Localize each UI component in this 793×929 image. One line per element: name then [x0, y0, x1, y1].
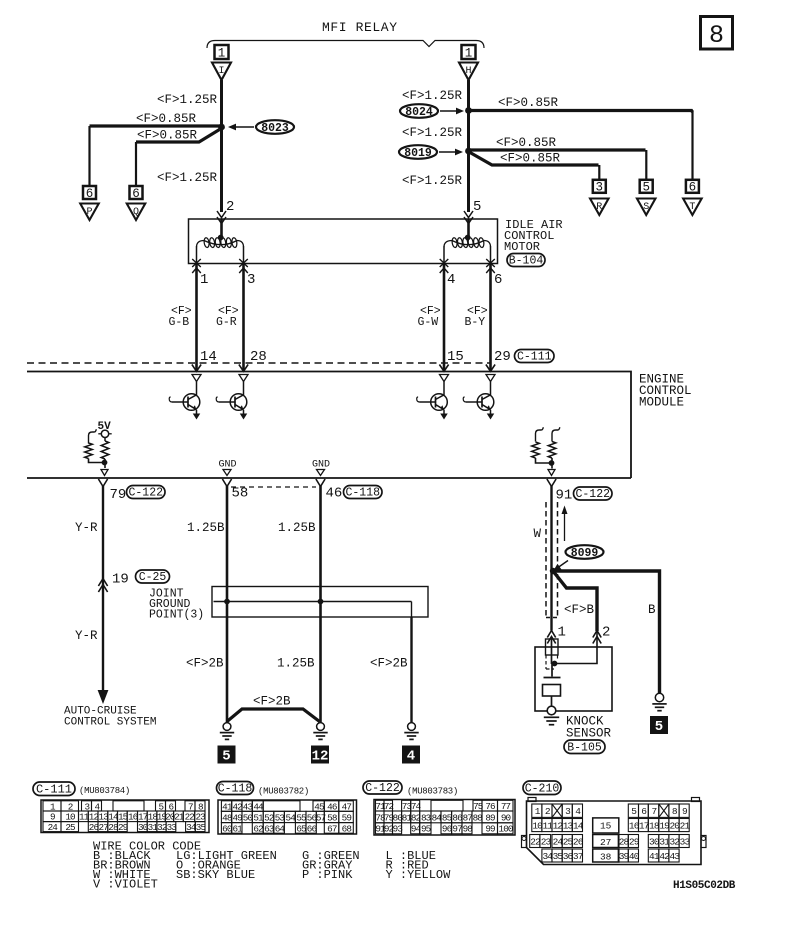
- svg-text:C-122: C-122: [128, 486, 163, 499]
- svg-text:8099: 8099: [571, 547, 599, 560]
- svg-text:<F>1.25R: <F>1.25R: [157, 171, 218, 185]
- chevrons knock pin 2: [593, 631, 601, 638]
- svg-text:60: 60: [222, 823, 232, 834]
- connector oval B-104: [507, 254, 545, 267]
- idle air control motor box B-104: [189, 219, 498, 264]
- svg-text:79: 79: [110, 487, 127, 503]
- bus drop wire: [411, 602, 413, 618]
- svg-text:29: 29: [494, 349, 511, 365]
- svg-text:C-118: C-118: [218, 782, 253, 795]
- svg-text:82: 82: [411, 812, 421, 823]
- circuit ref oval 8023: [256, 120, 294, 134]
- svg-text:41: 41: [649, 851, 660, 862]
- svg-text:<F>0.85R: <F>0.85R: [136, 112, 197, 126]
- wire pin1 into sensor: [551, 638, 553, 664]
- wire pin5 to coil center tap: [467, 219, 470, 237]
- node shield split: [550, 568, 556, 574]
- engine control module box: [27, 372, 631, 479]
- svg-text:4: 4: [447, 272, 455, 288]
- svg-text:(MU803784): (MU803784): [79, 786, 130, 796]
- node coil1 center tap: [218, 235, 224, 241]
- svg-text:4: 4: [407, 749, 415, 765]
- svg-text:2: 2: [226, 199, 234, 215]
- wire IACM pin4 to ECM 15: [443, 264, 446, 372]
- svg-text:90: 90: [501, 812, 511, 823]
- svg-text:16: 16: [128, 812, 138, 823]
- emitter ground arrow Q3: [440, 414, 448, 420]
- svg-text:5: 5: [642, 181, 650, 195]
- svg-text:63: 63: [264, 823, 274, 834]
- svg-text:CONTROL SYSTEM: CONTROL SYSTEM: [64, 717, 156, 729]
- node sensor junction: [552, 661, 558, 667]
- svg-text:1.25B: 1.25B: [278, 521, 316, 535]
- triangle H (right relay pin): [459, 63, 478, 81]
- wire branch 0.85R to R: [470, 153, 599, 166]
- chevron wire4 into ECM: [439, 365, 448, 372]
- svg-text:96: 96: [442, 824, 452, 835]
- wire main right feed: [467, 80, 470, 212]
- svg-text:51: 51: [253, 812, 264, 823]
- svg-text:6: 6: [86, 187, 94, 201]
- wire Y-R pin79 down: [102, 486, 104, 692]
- transistor Q2: [230, 394, 247, 411]
- wire 58 ground drop: [226, 602, 229, 723]
- svg-text:12: 12: [312, 749, 329, 765]
- chevron wire3 into ECM: [239, 365, 248, 372]
- svg-text:85: 85: [442, 812, 452, 823]
- svg-text:18: 18: [649, 820, 660, 831]
- svg-text:14: 14: [573, 820, 584, 831]
- C-210 right tab: [701, 836, 706, 848]
- svg-text:97: 97: [452, 824, 462, 835]
- input triangle pin wire 2: [239, 375, 248, 382]
- svg-text:(MU803782): (MU803782): [258, 787, 309, 797]
- svg-text:6: 6: [132, 187, 140, 201]
- connector box 6 (Q): [130, 186, 143, 199]
- svg-text:83: 83: [421, 812, 431, 823]
- svg-text:<F>2B: <F>2B: [370, 657, 408, 671]
- C-210 left tab: [522, 836, 527, 848]
- connector C-210 header: [523, 781, 561, 795]
- svg-text:1: 1: [465, 46, 473, 60]
- node bus 58: [224, 599, 230, 605]
- shield dashed right: [557, 502, 559, 618]
- svg-text:68: 68: [342, 823, 352, 834]
- svg-text:46: 46: [326, 486, 343, 502]
- svg-text:P: P: [86, 207, 92, 218]
- svg-text:43: 43: [669, 851, 680, 862]
- svg-text:64: 64: [275, 823, 286, 834]
- wire (F)B to knock pin 2: [553, 571, 597, 631]
- wire 58 to joint ground: [226, 486, 229, 602]
- arrow from 8023 to junction: [234, 126, 254, 128]
- svg-text:48: 48: [222, 812, 232, 823]
- svg-text:28: 28: [108, 822, 118, 833]
- svg-text:3: 3: [596, 181, 604, 195]
- svg-text:61: 61: [232, 823, 243, 834]
- triangle P: [80, 204, 99, 221]
- resistor left pullup: [104, 438, 106, 442]
- connector table C-111: [41, 800, 209, 833]
- svg-text:V :VIOLET: V :VIOLET: [93, 878, 158, 892]
- direction arrow up: [564, 513, 566, 541]
- connector box 3: [593, 180, 606, 193]
- connector C-210 housing: [527, 801, 702, 865]
- svg-text:58: 58: [232, 486, 249, 502]
- input triangle pin wire 3: [440, 375, 449, 382]
- connector oval B-105: [564, 740, 605, 754]
- svg-text:76: 76: [485, 801, 495, 812]
- svg-text:54: 54: [286, 812, 297, 823]
- svg-text:C-122: C-122: [575, 488, 610, 501]
- node bus 46: [318, 599, 324, 605]
- svg-text:R: R: [596, 202, 602, 213]
- transistor Q1: [183, 394, 200, 411]
- triangle S: [637, 199, 656, 216]
- svg-text:I: I: [218, 66, 224, 77]
- wire resistor join right: [536, 458, 552, 463]
- wire IACM pin3 to ECM 28: [242, 264, 245, 372]
- pin 46 chevron: [316, 479, 325, 487]
- svg-text:5: 5: [222, 749, 230, 765]
- svg-text:SENSOR: SENSOR: [566, 727, 612, 741]
- node resistor join left: [102, 460, 108, 466]
- triangle T: [683, 199, 702, 216]
- ground bus bar: [214, 601, 412, 603]
- connector table C-122 header: [363, 781, 402, 794]
- svg-text:<F>0.85R: <F>0.85R: [498, 96, 559, 110]
- connector pin box 1 (left MFI relay output): [215, 45, 229, 59]
- piezo element: [551, 664, 553, 677]
- shielded wire W pin 91: [550, 486, 552, 631]
- svg-text:1.25B: 1.25B: [187, 521, 225, 535]
- C-210 wide cell 15: [593, 818, 619, 833]
- resistor left second with hook: [89, 429, 97, 443]
- svg-text:67: 67: [327, 823, 337, 834]
- svg-text:6: 6: [689, 181, 697, 195]
- node junction 8019: [465, 148, 472, 155]
- svg-text:Y :YELLOW: Y :YELLOW: [386, 868, 452, 882]
- svg-text:Y-R: Y-R: [75, 521, 98, 535]
- connector table C-118: [218, 800, 357, 834]
- svg-text:<F>0.85R: <F>0.85R: [500, 152, 561, 166]
- svg-text:<F>B: <F>B: [564, 603, 595, 617]
- connector oval C-122 right: [574, 487, 613, 500]
- svg-text:<F>2B: <F>2B: [186, 657, 224, 671]
- svg-text:24: 24: [48, 822, 59, 833]
- gnd triangle 58: [223, 470, 231, 476]
- C-210 wide cell 38: [593, 849, 619, 862]
- C-210 wide cell 27: [593, 835, 619, 848]
- triangle I (left relay pin): [212, 63, 231, 81]
- svg-text:93: 93: [393, 824, 403, 835]
- svg-text:74: 74: [411, 801, 422, 812]
- shield dashed bottom: [546, 617, 558, 619]
- output triangle pin 79: [101, 470, 108, 476]
- svg-text:(MU803783): (MU803783): [407, 787, 458, 797]
- emitter ground arrow Q4: [487, 414, 495, 420]
- svg-text:30: 30: [649, 836, 660, 847]
- arrow from 8099 to shield node: [558, 561, 568, 568]
- svg-text:27: 27: [600, 837, 611, 848]
- svg-text:23: 23: [541, 836, 552, 847]
- connector table C-122: [374, 800, 515, 836]
- wire branch 0.85R to P: [90, 124, 222, 127]
- ground 12: [317, 723, 325, 731]
- svg-text:MOTOR: MOTOR: [504, 240, 540, 254]
- svg-text:72: 72: [384, 801, 394, 812]
- svg-text:C-118: C-118: [345, 486, 380, 499]
- svg-text:95: 95: [421, 824, 431, 835]
- svg-text:H: H: [465, 66, 471, 77]
- connector oval C-122: [127, 486, 166, 499]
- svg-text:B-Y: B-Y: [465, 316, 486, 329]
- svg-text:C-25: C-25: [139, 571, 167, 584]
- svg-text:<F>0.85R: <F>0.85R: [496, 136, 557, 150]
- svg-text:33: 33: [167, 822, 177, 833]
- svg-text:86: 86: [452, 812, 462, 823]
- coil right winding: [444, 241, 491, 248]
- ground 4: [408, 723, 416, 731]
- svg-text:25: 25: [65, 822, 75, 833]
- svg-text:59: 59: [342, 812, 352, 823]
- connector oval C-118: [344, 486, 383, 499]
- svg-text:<F>1.25R: <F>1.25R: [402, 126, 463, 140]
- svg-text:B-104: B-104: [509, 254, 544, 267]
- svg-text:49: 49: [232, 812, 242, 823]
- svg-text:MODULE: MODULE: [639, 396, 684, 410]
- wire bus to ground 4: [410, 617, 412, 723]
- svg-text:66: 66: [307, 823, 317, 834]
- svg-text:17: 17: [639, 820, 649, 831]
- chevron wire6 into ECM: [486, 365, 495, 372]
- svg-text:MFI RELAY: MFI RELAY: [322, 20, 398, 35]
- svg-text:75: 75: [473, 801, 483, 812]
- wire bridge (F)2B between grounds: [227, 709, 320, 722]
- svg-text:5: 5: [473, 199, 481, 215]
- svg-text:<F>2B: <F>2B: [253, 695, 291, 709]
- node coil2 center tap: [465, 235, 471, 241]
- wire branch 0.85R to S: [469, 148, 646, 151]
- svg-text:G-B: G-B: [169, 316, 190, 329]
- wire resistor join left: [89, 459, 105, 463]
- svg-text:C-111: C-111: [36, 782, 72, 796]
- gnd triangle 46: [317, 470, 325, 476]
- svg-text:C-122: C-122: [365, 782, 400, 795]
- svg-text:G-W: G-W: [418, 316, 439, 329]
- svg-text:<F>0.85R: <F>0.85R: [137, 129, 198, 143]
- svg-text:50: 50: [243, 812, 253, 823]
- resistor right pair with hooks (knock sensor bias): [536, 427, 544, 441]
- input triangle pin wire 1: [192, 375, 201, 382]
- wire IACM pin1 to ECM 14: [195, 264, 198, 372]
- svg-text:1.25B: 1.25B: [277, 657, 315, 671]
- connector box 6 (P): [83, 186, 96, 199]
- svg-text:T: T: [689, 202, 695, 213]
- svg-text:62: 62: [253, 823, 263, 834]
- output triangle pin 91: [548, 470, 555, 476]
- arrow from 8024 to junction: [440, 110, 458, 112]
- chevron into IACM pin 5: [464, 211, 473, 218]
- svg-text:27: 27: [99, 822, 109, 833]
- svg-text:POINT(3): POINT(3): [149, 609, 204, 622]
- wire B to ground: [553, 571, 660, 694]
- pin 58 chevron: [222, 479, 231, 487]
- svg-text:C-210: C-210: [525, 782, 560, 795]
- connector box 6: [686, 180, 699, 193]
- knock sensor box B-105: [535, 647, 612, 711]
- svg-text:7: 7: [651, 806, 656, 817]
- svg-text:26: 26: [573, 836, 584, 847]
- svg-text:35: 35: [196, 822, 206, 833]
- svg-text:8019: 8019: [404, 147, 432, 160]
- chevron into IACM pin 2: [217, 211, 226, 218]
- svg-text:100: 100: [499, 824, 513, 835]
- C-210 corner tabs: [528, 798, 536, 802]
- svg-text:8024: 8024: [405, 106, 433, 119]
- node junction 8023: [218, 124, 225, 131]
- svg-text:37: 37: [573, 851, 583, 862]
- svg-text:3: 3: [247, 272, 255, 288]
- connector oval C-111: [515, 350, 555, 363]
- connector pin box 1 (right MFI relay output): [462, 45, 476, 59]
- svg-text:40: 40: [629, 851, 640, 862]
- connector box 5: [640, 180, 653, 193]
- svg-text:98: 98: [463, 824, 473, 835]
- svg-text:H1S05C02DB: H1S05C02DB: [673, 880, 736, 892]
- svg-text:P :PINK: P :PINK: [302, 868, 353, 882]
- brace under MFI RELAY: [207, 41, 484, 49]
- dashed connector line C-111: [27, 362, 491, 364]
- svg-text:21: 21: [680, 820, 691, 831]
- circuit ref oval 8019: [399, 145, 437, 159]
- svg-text:<F>1.25R: <F>1.25R: [402, 89, 463, 103]
- svg-text:55: 55: [296, 812, 306, 823]
- wire pin2 to coil center tap: [220, 219, 223, 237]
- dashed tie 58-46: [231, 486, 316, 488]
- svg-text:89: 89: [485, 812, 495, 823]
- svg-text:2: 2: [602, 625, 610, 641]
- ground B wire: [655, 693, 663, 701]
- wire branch 0.85R to Q: [136, 130, 220, 143]
- svg-text:32: 32: [157, 822, 167, 833]
- transistor Q4: [477, 394, 494, 411]
- node resistor join right: [549, 460, 555, 466]
- wire 46 to joint ground: [319, 486, 322, 602]
- connector oval C-25: [136, 570, 170, 583]
- emitter ground arrow Q1: [193, 414, 201, 420]
- connector table C-111 header: [33, 782, 75, 796]
- svg-text:33: 33: [680, 836, 691, 847]
- svg-text:8: 8: [709, 21, 724, 50]
- svg-text:5: 5: [655, 719, 663, 735]
- svg-text:77: 77: [501, 801, 511, 812]
- svg-text:S: S: [643, 202, 649, 213]
- joint ground point box: [212, 587, 428, 618]
- svg-text:53: 53: [275, 812, 285, 823]
- svg-text:91: 91: [556, 488, 573, 504]
- wire IACM pin6 to ECM 29: [489, 264, 492, 372]
- svg-text:30: 30: [138, 822, 148, 833]
- svg-text:29: 29: [629, 836, 640, 847]
- svg-text:1: 1: [218, 46, 226, 60]
- coil left winding: [197, 241, 244, 248]
- triangle Q: [127, 204, 146, 221]
- input triangle pin wire 4: [486, 375, 495, 382]
- svg-text:B: B: [648, 603, 656, 617]
- wire branch 0.85R to T: [469, 111, 693, 113]
- arrow from 8019 to junction: [439, 151, 457, 153]
- connector C-210 cells: [532, 804, 542, 817]
- chevron wire1 into ECM: [192, 365, 201, 372]
- svg-text:1: 1: [558, 625, 566, 641]
- svg-text:15: 15: [600, 821, 612, 832]
- chevrons knock pin 1: [547, 631, 555, 638]
- page number box 8: [701, 17, 733, 50]
- shield entry collar: [546, 639, 559, 655]
- pin 79 chevron: [98, 479, 107, 487]
- arrow to auto-cruise: [98, 690, 109, 704]
- svg-text:99: 99: [485, 824, 495, 835]
- svg-text:W: W: [534, 527, 542, 541]
- svg-text:26: 26: [89, 822, 99, 833]
- node junction 8024: [465, 107, 472, 114]
- svg-text:SB:SKY BLUE: SB:SKY BLUE: [176, 868, 255, 882]
- circuit ref oval 8099: [566, 545, 604, 559]
- svg-text:B-105: B-105: [567, 741, 602, 754]
- svg-text:1: 1: [200, 272, 208, 288]
- wire 46 ground drop: [319, 602, 322, 723]
- svg-text:88: 88: [473, 812, 483, 823]
- svg-text:8023: 8023: [261, 122, 289, 135]
- connector table C-118 header: [217, 782, 254, 795]
- svg-text:58: 58: [327, 812, 337, 823]
- svg-text:52: 52: [264, 812, 274, 823]
- svg-text:G-R: G-R: [216, 316, 237, 329]
- emitter ground arrow Q2: [240, 414, 248, 420]
- triangle R: [590, 199, 609, 216]
- wire main left feed: [220, 80, 223, 212]
- svg-text:<F>1.25R: <F>1.25R: [402, 174, 463, 188]
- circuit ref oval 8024: [400, 104, 438, 118]
- svg-text:<F>1.25R: <F>1.25R: [157, 93, 218, 107]
- svg-text:65: 65: [296, 823, 306, 834]
- svg-text:87: 87: [463, 812, 473, 823]
- svg-text:38: 38: [600, 852, 612, 863]
- wire pin2 into sensor: [555, 632, 598, 664]
- sensor internal ground: [547, 706, 556, 715]
- svg-text:Q: Q: [133, 207, 139, 218]
- pin 91 chevron: [547, 479, 556, 487]
- svg-text:6: 6: [494, 272, 502, 288]
- svg-text:Y-R: Y-R: [75, 629, 98, 643]
- shield dashed left: [545, 502, 547, 618]
- transistor Q3: [431, 394, 448, 411]
- shield dash inside: [545, 655, 547, 669]
- ground 5: [223, 723, 231, 731]
- chevron pair C-25: [98, 579, 107, 587]
- svg-text:C-111: C-111: [517, 350, 552, 363]
- svg-text:29: 29: [118, 822, 128, 833]
- svg-text:19: 19: [112, 572, 129, 588]
